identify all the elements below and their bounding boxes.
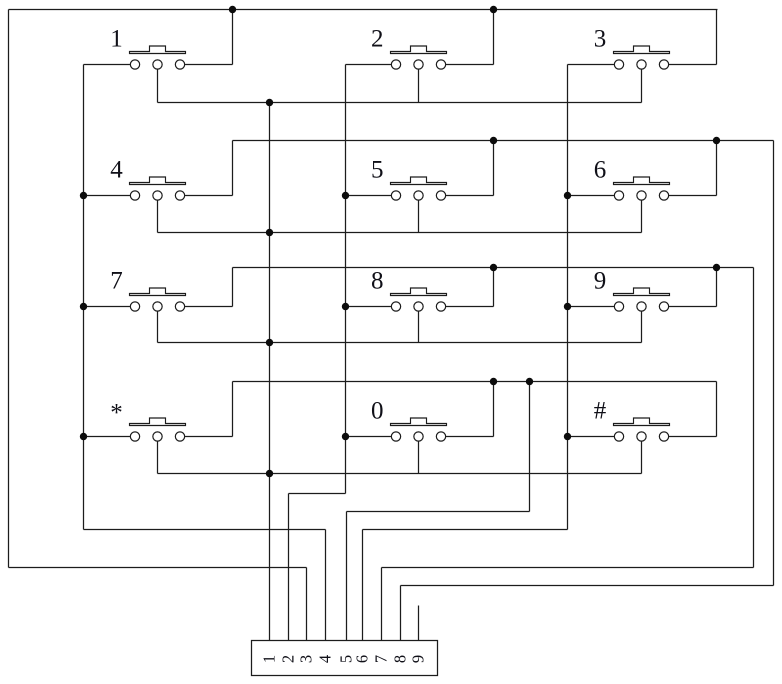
svg-text:4: 4 (316, 655, 335, 663)
connector J1 pin label 4 (316, 655, 335, 663)
svg-text:8: 8 (371, 268, 384, 295)
wire S3 right lead (669, 64, 717, 66)
wire riser S5 right terminal to row-2 rail (493, 141, 495, 196)
wire column-3 rail (567, 65, 569, 530)
wire pin-9 stub (418, 606, 420, 642)
wire S2 middle drop (418, 69, 420, 102)
svg-text:7: 7 (110, 268, 123, 295)
pushbutton S11 key "0" (371, 398, 446, 442)
wire column-2 rail (345, 65, 347, 494)
svg-text:3: 3 (297, 655, 316, 663)
wire riser S11 right terminal to row-4 rail (493, 382, 495, 437)
junction column-2 rail / S11 lead (342, 433, 349, 440)
junction row-4 rail / S11 riser (490, 378, 497, 385)
wire S11 left lead (346, 436, 392, 438)
wire S9 middle drop (641, 311, 643, 342)
wire riser S3 right terminal to row-1 rail (716, 10, 718, 65)
wire S12 right lead (669, 436, 717, 438)
wire S11 middle drop (418, 441, 420, 473)
connector J1 pin label 8 (391, 655, 410, 663)
wire S10 right lead (185, 436, 233, 438)
wire S7 right lead (185, 306, 233, 308)
wire S6 middle drop (641, 200, 643, 232)
wire pin-2 run (289, 493, 346, 495)
wire common vertical to pin 1 (269, 103, 271, 642)
wire pin-3 drop (306, 568, 308, 642)
junction row-3 middle line / pin-1 vertical (266, 339, 273, 346)
wire pin-8 run (401, 585, 774, 587)
wire S2 left lead (346, 64, 392, 66)
wire S7 left lead (84, 306, 131, 308)
wire pin-6 run (363, 529, 568, 531)
svg-text:9: 9 (594, 268, 607, 295)
wire S6 left lead (568, 195, 615, 197)
pushbutton S12 key "#" (594, 398, 670, 442)
wire row-1 middle line (158, 102, 642, 104)
wire pin-4 run (84, 529, 326, 531)
pushbutton S1 key "1" (110, 26, 185, 70)
wire pin-5 drop (346, 512, 348, 642)
svg-text:9: 9 (409, 655, 428, 663)
junction top rail / S2 riser (490, 6, 497, 13)
wire S4 right lead (185, 195, 233, 197)
junction row-2 middle line / pin-1 vertical (266, 229, 273, 236)
pushbutton S3 key "3" (594, 26, 670, 70)
wire riser S6 right terminal to row-2 rail (716, 141, 718, 196)
wire riser S7 right terminal to row-3 rail (232, 268, 234, 307)
wire row-3 middle line (158, 342, 642, 344)
junction row-4 rail / pin-5 riser (526, 378, 533, 385)
wire row-2 middle line (158, 232, 642, 234)
wire pin-2 drop (288, 494, 290, 642)
wire pin-5 run (347, 511, 530, 513)
wire riser S2 right terminal to row-1 rail (493, 10, 495, 65)
pushbutton S8 key "8" (371, 268, 446, 312)
svg-text:8: 8 (391, 655, 410, 663)
wire S3 left lead (568, 64, 615, 66)
wire S2 right lead (446, 64, 494, 66)
svg-text:#: # (594, 398, 607, 425)
junction column-3 rail / S6 lead (564, 192, 571, 199)
wire S4 left lead (84, 195, 131, 197)
wire S3 middle drop (641, 69, 643, 102)
svg-text:7: 7 (372, 655, 391, 663)
wire S12 left lead (568, 436, 615, 438)
svg-text:2: 2 (279, 655, 298, 663)
wire S12 middle drop (641, 441, 643, 473)
junction row-2 rail / S5 riser (490, 137, 497, 144)
wire S9 left lead (568, 306, 615, 308)
wire S8 middle drop (418, 311, 420, 342)
wire row-4 middle line (158, 473, 642, 475)
connector J1 pin label 7 (372, 655, 391, 663)
junction column-3 rail / S9 lead (564, 303, 571, 310)
junction row-1 middle line / pin-1 vertical (266, 99, 273, 106)
junction column-1 rail / S10 lead (80, 433, 87, 440)
junction row-3 rail / S9 riser (713, 264, 720, 271)
wire pin-3 run (9, 567, 307, 569)
wire pin-6 drop (362, 530, 364, 642)
wire S4 middle drop (157, 200, 159, 232)
wire left border riser (top rail to pin-3 run) (8, 10, 10, 568)
wire S8 right lead (446, 306, 494, 308)
wire pin-7 run (382, 567, 754, 569)
connector J1 pin label 9 (409, 655, 428, 663)
junction row-3 rail / S8 riser (490, 264, 497, 271)
pushbutton S4 key "4" (110, 157, 185, 201)
wire row-4 top rail (233, 381, 717, 383)
connector J1 pin label 5 (337, 655, 356, 663)
svg-text:6: 6 (353, 655, 372, 663)
connector J1 pin label 6 (353, 655, 372, 663)
wire pin-8 drop (400, 586, 402, 642)
wire S9 right lead (669, 306, 717, 308)
wire row-1 top rail (9, 9, 718, 11)
wire right riser rail-2 to pin-8 run (773, 141, 775, 586)
junction column-2 rail / S8 lead (342, 303, 349, 310)
svg-text:*: * (110, 400, 123, 427)
wire pin-4 drop (325, 530, 327, 642)
junction top rail / S1 riser (229, 6, 236, 13)
wire S5 middle drop (418, 200, 420, 232)
svg-text:1: 1 (110, 26, 123, 53)
svg-text:3: 3 (594, 26, 607, 53)
junction row-2 rail / S6 riser (713, 137, 720, 144)
junction column-2 rail / S5 lead (342, 192, 349, 199)
junction row-4 middle line / pin-1 vertical (266, 470, 273, 477)
wire column-1 rail (83, 65, 85, 530)
pushbutton S2 key "2" (371, 26, 446, 70)
svg-text:1: 1 (260, 655, 279, 663)
wire S1 right lead (185, 64, 233, 66)
connector J1 body (252, 641, 438, 676)
wire S1 middle drop (157, 69, 159, 102)
wire right riser rail-3 to pin-7 run (753, 268, 755, 568)
pushbutton S7 key "7" (110, 268, 185, 312)
junction column-1 rail / S4 lead (80, 192, 87, 199)
svg-text:6: 6 (594, 157, 607, 184)
svg-text:5: 5 (371, 157, 384, 184)
wire S5 left lead (346, 195, 392, 197)
svg-text:2: 2 (371, 26, 384, 53)
wire S10 middle drop (157, 441, 159, 473)
pushbutton S5 key "5" (371, 157, 446, 201)
connector J1 pin label 3 (297, 655, 316, 663)
pushbutton S9 key "9" (594, 268, 670, 312)
wire S11 right lead (446, 436, 494, 438)
wire riser S8 right terminal to row-3 rail (493, 268, 495, 307)
wire S1 left lead (84, 64, 131, 66)
junction column-1 rail / S7 lead (80, 303, 87, 310)
wire S5 right lead (446, 195, 494, 197)
wire riser S9 right terminal to row-3 rail (716, 268, 718, 307)
wire riser S10 right terminal to row-4 rail (232, 382, 234, 437)
svg-text:4: 4 (110, 157, 123, 184)
wire row-2 top rail (233, 140, 774, 142)
wire riser S12 right terminal to row-4 rail (716, 382, 718, 437)
wire S8 left lead (346, 306, 392, 308)
svg-text:0: 0 (371, 398, 384, 425)
junction column-3 rail / S12 lead (564, 433, 571, 440)
wire riser rail-4 to pin-5 run (529, 382, 531, 512)
wire S7 middle drop (157, 311, 159, 342)
wire S10 left lead (84, 436, 131, 438)
pushbutton S10 key "*" (110, 400, 185, 442)
wire riser S4 right terminal to row-2 rail (232, 141, 234, 196)
wire riser S1 right terminal to row-1 rail (232, 10, 234, 65)
connector J1 pin label 1 (260, 655, 279, 663)
pushbutton S6 key "6" (594, 157, 670, 201)
connector J1 pin label 2 (279, 655, 298, 663)
wire row-3 top rail (233, 267, 754, 269)
wire pin-7 drop (381, 568, 383, 642)
wire S6 right lead (669, 195, 717, 197)
